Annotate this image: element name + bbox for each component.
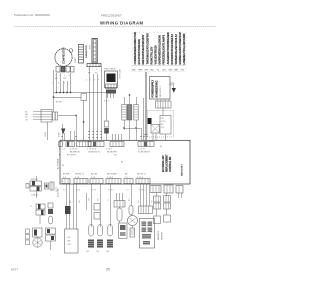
svg-text:95: 95	[160, 146, 162, 148]
svg-text:2: 2	[92, 69, 93, 71]
svg-text:BK WH: BK WH	[56, 102, 63, 104]
svg-text:BK WH OR: BK WH OR	[70, 152, 80, 154]
svg-text:OR RD YL: OR RD YL	[75, 174, 84, 176]
svg-text:J4: J4	[122, 161, 124, 163]
svg-text:6: 6	[94, 80, 95, 82]
svg-text:1 2 3 4: 1 2 3 4	[108, 190, 114, 192]
svg-text:CONDENSERFANMOTOR: CONDENSERFANMOTOR	[133, 32, 137, 65]
svg-text:MAINBOARDPOWERSUP: MAINBOARDPOWERSUP	[178, 32, 182, 65]
svg-text:E077: E077	[11, 268, 18, 272]
svg-text:TH2: TH2	[96, 251, 99, 253]
svg-text:WIRING DIAGRAM: WIRING DIAGRAM	[100, 21, 144, 26]
svg-text:CONTROL BD: CONTROL BD	[170, 156, 172, 172]
svg-text:L1 BK: L1 BK	[45, 131, 47, 137]
svg-text:1 2 3 4 5 6: 1 2 3 4 5 6	[87, 149, 96, 151]
svg-text:VALVEWTR120: VALVEWTR120	[154, 45, 158, 65]
svg-text:1 2 3 4: 1 2 3 4	[106, 149, 112, 151]
svg-text:THERMOSTATCCDEFRS: THERMOSTATCCDEFRS	[145, 33, 149, 64]
svg-text:BOARD120VAC: BOARD120VAC	[155, 80, 158, 97]
svg-text:PTC: PTC	[90, 44, 92, 49]
svg-text:C2 C3: C2 C3	[56, 187, 58, 192]
svg-text:4: 4	[69, 75, 70, 77]
svg-text:TH3: TH3	[106, 251, 109, 253]
svg-text:1 2 3: 1 2 3	[92, 190, 96, 192]
svg-text:5: 5	[90, 80, 91, 82]
svg-text:WH: WH	[139, 70, 143, 72]
svg-text:CAPACITOR: CAPACITOR	[85, 45, 88, 58]
svg-text:TH1: TH1	[86, 251, 89, 253]
svg-text:SEE NOTE 4: SEE NOTE 4	[182, 163, 184, 176]
svg-text:1 2: 1 2	[63, 190, 66, 192]
svg-text:1 2 3 4 5: 1 2 3 4 5	[138, 149, 145, 151]
svg-text:SEE NOTE 2: SEE NOTE 2	[160, 85, 162, 98]
svg-text:20: 20	[106, 268, 110, 272]
svg-text:1 2: 1 2	[126, 190, 129, 192]
svg-text:DOORSWITCHFZREF12: DOORSWITCHFZREF12	[170, 34, 174, 65]
svg-text:BK WH: BK WH	[63, 174, 70, 176]
svg-text:COM NC: COM NC	[31, 195, 39, 197]
svg-text:RD: RD	[151, 70, 155, 72]
svg-text:HUMIDITY: HUMIDITY	[158, 230, 160, 240]
svg-text:DEFROSTHEATER120V: DEFROSTHEATER120V	[141, 34, 145, 64]
svg-text:SW1 NO: SW1 NO	[31, 179, 39, 181]
svg-text:3: 3	[64, 75, 65, 77]
svg-text:RD OR YL: RD OR YL	[137, 174, 146, 176]
svg-text:RUNCTRL12V: RUNCTRL12V	[149, 47, 153, 65]
svg-text:BR: BR	[175, 70, 178, 72]
svg-text:1 2: 1 2	[62, 149, 65, 151]
svg-text:EYY EOYT: EYY EOYT	[67, 155, 77, 157]
svg-text:RD BK WH: RD BK WH	[107, 152, 117, 154]
svg-text:COMPRESSOR: COMPRESSOR	[64, 47, 66, 64]
svg-text:Publication No. 809099902: Publication No. 809099902	[14, 13, 50, 17]
svg-text:FREEZERLIGHTLAMP1: FREEZERLIGHTLAMP1	[162, 34, 166, 64]
svg-text:FRSC2333AS7: FRSC2333AS7	[101, 14, 122, 18]
svg-text:DISPENSERSOLENOID: DISPENSERSOLENOID	[158, 35, 162, 65]
svg-text:OVERLOAD: OVERLOAD	[119, 68, 122, 79]
svg-text:1 2 3: 1 2 3	[76, 190, 80, 192]
svg-text:BU GN: BU GN	[91, 174, 98, 176]
svg-text:REPLACEMENT: REPLACEMENT	[166, 154, 169, 172]
svg-text:START: START	[74, 56, 77, 63]
svg-text:1: 1	[55, 75, 56, 77]
svg-text:GND: GND	[169, 85, 174, 87]
svg-text:1 2 3 4 5: 1 2 3 4 5	[70, 149, 77, 151]
svg-text:GN: GN	[169, 70, 173, 72]
svg-text:WATERVALVECCSOL12: WATERVALVECCSOL12	[174, 34, 178, 65]
svg-text:YL BR GN TN: YL BR GN TN	[138, 152, 150, 154]
svg-text:LINENEUTRALGROUND: LINENEUTRALGROUND	[182, 34, 186, 65]
svg-text:EVAPORATORFAN1: EVAPORATORFAN1	[137, 39, 141, 65]
svg-text:TN: TN	[181, 70, 184, 72]
svg-text:7: 7	[98, 80, 99, 82]
svg-text:95: 95	[62, 165, 64, 167]
svg-text:SENSOR: SENSOR	[162, 231, 164, 240]
svg-text:S M C: S M C	[104, 101, 110, 103]
svg-text:4: 4	[86, 80, 87, 82]
svg-text:POWERSUPPLY: POWERSUPPLY	[153, 79, 155, 97]
svg-text:START RELAY: START RELAY	[104, 68, 117, 71]
svg-text:CTRL: CTRL	[161, 121, 166, 123]
svg-text:3: 3	[96, 69, 97, 71]
svg-text:AC POWER: AC POWER	[57, 158, 60, 169]
svg-text:OR: OR	[145, 70, 149, 72]
svg-text:OR BU RD YL: OR BU RD YL	[88, 152, 100, 154]
svg-text:EOC30000–000: EOC30000–000	[163, 155, 165, 172]
svg-text:BU: BU	[163, 70, 166, 72]
svg-text:BR TN WH: BR TN WH	[107, 174, 117, 176]
svg-text:N WH: N WH	[59, 132, 61, 137]
svg-text:YL: YL	[108, 199, 110, 201]
svg-text:AUGERMOTORWIRESBK: AUGERMOTORWIRESBK	[166, 32, 170, 64]
